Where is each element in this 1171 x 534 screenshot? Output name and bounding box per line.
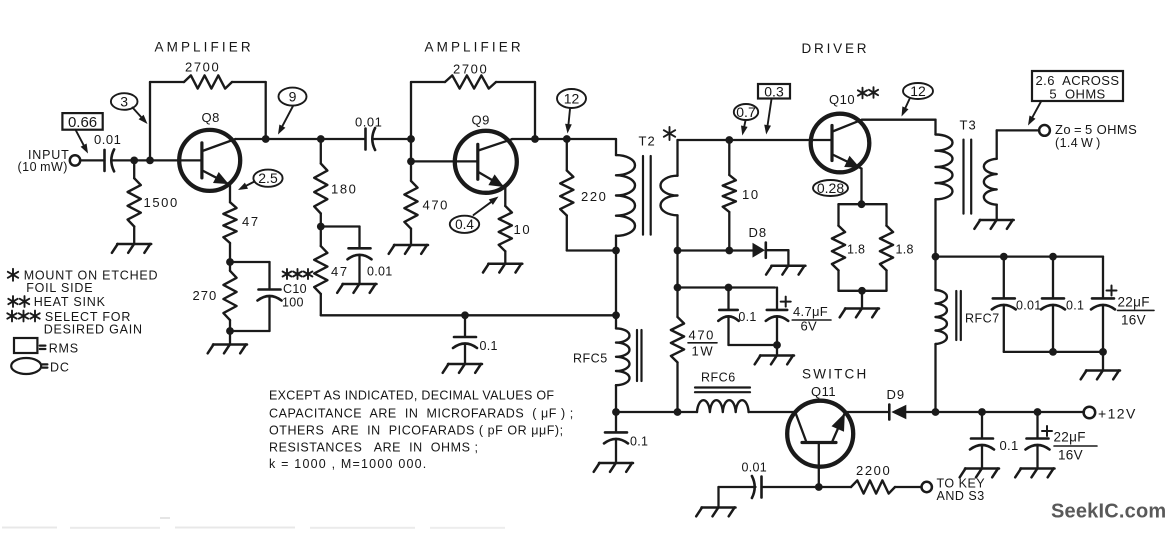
- label *** (select for gain): [286, 269, 288, 279]
- oval callout 0.28 (DC volts at Q10 emitter): [813, 180, 848, 196]
- capacitor 0.1 (supply): [1052, 257, 1054, 299]
- wire 4.7uF bottom leg: [776, 317, 778, 346]
- svg-text:2200: 2200: [856, 463, 891, 478]
- svg-text:180: 180: [331, 182, 358, 197]
- svg-text:+12V: +12V: [1098, 406, 1137, 422]
- svg-text:1W: 1W: [692, 344, 715, 359]
- output terminal Zo: [1039, 125, 1050, 136]
- diode D9: [891, 405, 906, 419]
- svg-text:CAPACITANCE ARE IN MICROFAR: CAPACITANCE ARE IN MICROFARADS ( μF ) ;: [269, 407, 574, 421]
- resistor 2200: [819, 486, 851, 488]
- Q8 collector lead: [202, 139, 235, 151]
- wire C1 to Q8 base: [112, 159, 202, 161]
- oval callout 3 (DC volts at Q8 base): [111, 93, 138, 110]
- legend ** heat sink: [12, 296, 14, 307]
- wire +12V rail right: [936, 411, 1085, 413]
- wire emitter network to ground: [861, 291, 863, 309]
- box callout 2.6 ACROSS 5 OHMS: [1032, 71, 1123, 101]
- wire coupling cap to Q9 node: [373, 138, 412, 140]
- wire Q11 to D9: [845, 411, 889, 413]
- wire T2 secondary top: [676, 140, 678, 176]
- wire long horizontal bus: [321, 314, 616, 316]
- svg-text:0.01: 0.01: [742, 461, 768, 475]
- node Q10 emitter junction: [858, 200, 866, 208]
- arrow from callout 3: [133, 108, 142, 118]
- svg-text:DESIRED GAIN: DESIRED GAIN: [44, 323, 143, 337]
- capacitor 0.1 (bus bypass): [464, 315, 466, 337]
- wire RFC5 top: [615, 315, 617, 328]
- node 2700 left leg junction: [146, 157, 154, 165]
- svg-text:2700: 2700: [185, 60, 220, 75]
- T3 primary winding: [936, 135, 953, 200]
- oval callout 12 (DC volts at Q9 collector): [557, 89, 586, 108]
- resistor 2700 (Q8 feedback): [184, 75, 232, 88]
- node 1.8 bottom junction: [858, 287, 866, 295]
- svg-text:(1.4 W ): (1.4 W ): [1055, 136, 1101, 150]
- wire 0.1 bottom leg: [727, 317, 729, 346]
- node 0.1 decoupling junction: [725, 284, 733, 292]
- resistor 270 (emitter bias): [229, 262, 231, 271]
- diode D8: [753, 243, 766, 258]
- svg-text:16V: 16V: [1121, 313, 1146, 328]
- svg-text:47: 47: [331, 264, 349, 279]
- svg-text:Q8: Q8: [202, 110, 220, 125]
- svg-text:DRIVER: DRIVER: [802, 41, 870, 56]
- svg-text:0.01: 0.01: [94, 132, 121, 147]
- svg-text:5 OHMS: 5 OHMS: [1049, 86, 1105, 101]
- svg-text:DC: DC: [50, 361, 70, 375]
- input terminal: [70, 155, 80, 165]
- capacitor 4.7uF 6V (electrolytic): [776, 288, 778, 310]
- node 2700b right junction: [531, 135, 539, 143]
- Q8 emitter lead: [202, 171, 230, 185]
- ground (below D8): [771, 265, 805, 268]
- wire 2700b left leg: [411, 81, 445, 83]
- node T2 primary bottom junction: [612, 247, 620, 255]
- svg-text:0.3: 0.3: [764, 83, 784, 99]
- transistor Q8: [179, 130, 240, 191]
- T3 core: [962, 140, 964, 214]
- ground (below shunt 0.01): [343, 283, 377, 286]
- legend DC oval symbol: [11, 358, 41, 374]
- resistor 10 (Q9 emitter): [504, 188, 506, 206]
- svg-text:RFC5: RFC5: [573, 352, 608, 366]
- wire cap row: [678, 286, 776, 288]
- resistor 2700 (Q9 feedback): [445, 75, 496, 88]
- Q11 emitter lead: [833, 413, 846, 442]
- capacitor 0.1 (below RFC5): [615, 412, 617, 432]
- svg-text:22μF: 22μF: [1054, 430, 1086, 445]
- wire 0.1 to ground (RFC5): [615, 439, 617, 463]
- Q9 collector lead: [478, 139, 512, 150]
- svg-text:16V: 16V: [1058, 448, 1083, 463]
- node 180 top junction: [317, 135, 325, 143]
- wire to ground below 270: [229, 331, 231, 345]
- node supply rail junction: [932, 408, 940, 416]
- node T2 secondary bottom junction: [674, 247, 682, 255]
- oval callout 04 (DC volts at Q9 emitter): [450, 216, 479, 233]
- resistor 180: [320, 139, 322, 164]
- svg-text:C10: C10: [283, 282, 307, 296]
- capacitor 0.01 (keying): [760, 477, 763, 498]
- svg-text:Q10: Q10: [829, 92, 855, 107]
- wire T3 primary bottom drop: [934, 199, 936, 256]
- svg-text:D9: D9: [887, 387, 906, 402]
- svg-text:Zo = 5 OHMS: Zo = 5 OHMS: [1055, 122, 1137, 137]
- svg-text:FOIL SIDE: FOIL SIDE: [26, 281, 93, 295]
- wire 2700 right leg to collector node: [232, 81, 266, 83]
- wire secondary bottom row: [678, 249, 754, 251]
- wire 22uF rail to ground: [1036, 445, 1038, 469]
- wire D9 to +12V rail: [906, 411, 935, 413]
- wire caps to ground: [776, 345, 778, 356]
- svg-text:4.7μF: 4.7μF: [793, 304, 828, 319]
- arrow from callout 9: [282, 106, 293, 126]
- resistor 1.8 (right): [885, 204, 887, 226]
- svg-text:SWITCH: SWITCH: [802, 367, 868, 382]
- Q11 collector lead: [795, 413, 806, 442]
- svg-text:RESISTANCES ARE IN OHMS ;: RESISTANCES ARE IN OHMS ;: [269, 441, 479, 455]
- node input bias junction: [130, 157, 138, 165]
- legend * mount on etched foil side: [12, 269, 14, 281]
- ground (below 1500): [117, 243, 151, 246]
- svg-text:0.4: 0.4: [455, 217, 474, 232]
- wire Q8 collector bus: [236, 138, 366, 140]
- capacitor 0.1 (rail bypass): [981, 412, 983, 439]
- svg-text:0.1: 0.1: [630, 435, 648, 449]
- svg-text:OTHERS ARE IN PICOFARADS (: OTHERS ARE IN PICOFARADS ( pF OR μμF);: [269, 424, 564, 438]
- svg-text:Q11: Q11: [811, 384, 836, 399]
- svg-text:0.01: 0.01: [367, 265, 393, 279]
- wire T3 secondary bottom: [996, 205, 998, 220]
- svg-text:AMPLIFIER: AMPLIFIER: [425, 40, 524, 55]
- node rail 0.1 junction: [978, 408, 986, 416]
- svg-text:220: 220: [581, 189, 608, 204]
- svg-text:100: 100: [282, 296, 304, 310]
- svg-text:k = 1000 , M=1000 000.: k = 1000 , M=1000 000.: [269, 457, 427, 471]
- svg-text:3: 3: [120, 93, 128, 109]
- wire +12V rail left: [616, 411, 697, 413]
- svg-text:D8: D8: [749, 225, 768, 240]
- wire supply caps bottom row: [1003, 305, 1005, 352]
- wire 1.8 top row: [839, 203, 887, 205]
- svg-text:1.8: 1.8: [896, 243, 914, 257]
- Q10 emitter lead: [833, 155, 862, 169]
- wire down to Q9 base node: [410, 139, 412, 161]
- capacitor C10 100 (emitter bypass): [259, 288, 281, 291]
- ground (below 4.7uF): [760, 354, 794, 357]
- arrow from callout 12: [569, 109, 571, 124]
- arrow from callout 0.66: [76, 130, 84, 145]
- wire 220 bottom to T2 primary bottom: [567, 249, 616, 251]
- svg-text:RMS: RMS: [49, 342, 79, 356]
- svg-text:SeekIC.com: SeekIC.com: [1051, 501, 1166, 523]
- wire C10 bottom leg: [268, 296, 270, 331]
- wire Q10 collector to T3: [862, 119, 936, 121]
- node 0.1 bypass junction: [461, 311, 469, 319]
- arrow from callout 0.3: [768, 99, 772, 125]
- svg-text:22μF: 22μF: [1118, 295, 1150, 310]
- RFC5 core: [636, 330, 638, 381]
- svg-text:0.01: 0.01: [1016, 299, 1042, 313]
- svg-text:9: 9: [289, 89, 297, 105]
- svg-text:10: 10: [742, 187, 760, 202]
- ground (below bus 0.1): [448, 363, 482, 366]
- ground (below rail 22uF): [1021, 467, 1055, 470]
- wire T2 secondary to Q10 base: [729, 139, 832, 141]
- node long-bus right junction: [612, 311, 620, 319]
- T2 secondary winding: [661, 176, 678, 216]
- wire Q9 base: [411, 160, 478, 162]
- wire secondary drop to cap row: [676, 251, 678, 288]
- scan artifact (cropped text at bottom edge): [2, 527, 57, 529]
- node bottom row 22uF junction: [1099, 348, 1107, 356]
- svg-text:T2: T2: [639, 134, 656, 149]
- T2 primary winding: [616, 155, 635, 236]
- arrow from callout 12 (driver): [905, 99, 909, 108]
- svg-text:0.1: 0.1: [738, 310, 756, 324]
- wire 0.1 rail to ground: [981, 445, 983, 469]
- svg-text:(10 mW): (10 mW): [18, 160, 68, 174]
- node Q9 base junction: [407, 158, 415, 166]
- node rail 22uF junction: [1034, 408, 1042, 416]
- svg-text:2700: 2700: [453, 62, 488, 77]
- ground (below 270/C10): [213, 343, 247, 346]
- svg-text:0.28: 0.28: [817, 180, 844, 196]
- node Q10 base bias top junction: [725, 136, 733, 144]
- wire shunt cap to ground: [358, 255, 360, 284]
- resistor 470 1W: [676, 288, 678, 318]
- svg-text:1500: 1500: [144, 195, 179, 210]
- transistor Q9: [455, 131, 517, 193]
- Q10 collector lead: [833, 120, 863, 132]
- ground (below 470): [394, 244, 428, 247]
- svg-text:AND S3: AND S3: [937, 489, 985, 503]
- svg-text:0.66: 0.66: [68, 114, 97, 131]
- node 470 1W rail junction: [674, 408, 682, 416]
- key terminal: [922, 482, 932, 492]
- resistor 470 (Q9 base bias): [410, 161, 412, 181]
- wire input to C1: [80, 159, 104, 161]
- box callout 0.66 (RMS volts at input): [62, 113, 102, 130]
- oval callout 2.5 (DC volts at Q8 emitter): [253, 170, 282, 187]
- wire T2 primary bottom: [615, 236, 617, 251]
- svg-text:T3: T3: [960, 118, 977, 133]
- legend RMS box symbol: [14, 338, 37, 353]
- inductor RFC6: [697, 400, 749, 412]
- node 220 top junction: [563, 135, 571, 143]
- wire 2700b right leg: [496, 81, 535, 83]
- transistor Q10 **: [811, 114, 870, 173]
- svg-text:1.8: 1.8: [847, 243, 865, 257]
- wire keying cap to ground: [719, 486, 756, 488]
- ground (T3 secondary): [980, 219, 1014, 222]
- inductor RFC5: [616, 328, 630, 385]
- arrow from callout 04: [474, 202, 491, 215]
- svg-text:270: 270: [193, 288, 218, 303]
- ground (keying cap): [702, 506, 736, 509]
- node 180/47 junction: [317, 223, 325, 231]
- svg-text:RFC6: RFC6: [701, 371, 736, 385]
- svg-text:Q9: Q9: [472, 113, 490, 128]
- wire to ground (supply caps): [1102, 352, 1104, 371]
- svg-text:47: 47: [242, 214, 260, 229]
- transistor Q11: [787, 401, 853, 467]
- capacitor 22uF 16V (supply): [1092, 297, 1114, 300]
- svg-text:EXCEPT AS INDICATED, DECIMAL V: EXCEPT AS INDICATED, DECIMAL VALUES OF: [269, 389, 554, 403]
- node bottom row 0.1 junction: [1049, 348, 1057, 356]
- node 0.1 supply junction: [1049, 253, 1057, 261]
- wire T3 secondary top to output: [996, 130, 998, 158]
- arrow from callout 0.7: [744, 121, 745, 127]
- T3 secondary winding: [984, 159, 997, 205]
- wire supply rail (T3 row): [936, 255, 1104, 257]
- node RFC5 bottom rail junction: [612, 408, 620, 416]
- svg-text:0.7: 0.7: [736, 104, 756, 120]
- wire D8 cathode to ground: [766, 249, 789, 251]
- resistor 1.8 (left): [837, 204, 839, 226]
- node cap row left junction: [674, 284, 682, 292]
- wire T2 primary top: [615, 139, 617, 155]
- svg-text:0.1: 0.1: [480, 339, 498, 353]
- wire RFC5 bottom: [615, 385, 617, 412]
- wire T2 primary bottom drop: [615, 251, 617, 316]
- wire C10 top leg: [230, 261, 270, 263]
- svg-text:10: 10: [514, 222, 532, 237]
- +12V terminal: [1084, 407, 1096, 419]
- wire Q9 collector bus: [512, 138, 616, 140]
- svg-text:470: 470: [689, 328, 716, 343]
- arrow from callout 2.5: [246, 182, 254, 186]
- oval callout 12 (driver collector): [903, 83, 933, 99]
- node Q8 collector junction: [262, 135, 270, 143]
- capacitor 0.01 (shunt): [349, 247, 371, 250]
- node T3 primary bottom junction: [932, 253, 940, 261]
- wire RFC6 to Q11: [749, 411, 796, 413]
- ground (below 22uF): [1086, 369, 1120, 372]
- svg-text:6V: 6V: [801, 319, 818, 334]
- ground (below Q9 10): [488, 262, 522, 265]
- wire T2 secondary bottom: [676, 216, 678, 251]
- node Q8 emitter bias junction: [226, 258, 234, 266]
- box callout 0.3 (RMS volts at Q10 base): [758, 84, 790, 99]
- node 0.01 supply junction: [1000, 253, 1008, 261]
- svg-text:0.01: 0.01: [355, 115, 382, 130]
- arrow from callout 2.6: [1033, 102, 1042, 118]
- oval callout 0.7 (DC volts at Q10 base): [734, 104, 758, 120]
- T2 core: [642, 156, 644, 235]
- wire 2700 left leg to base node: [150, 81, 184, 83]
- Q9 emitter lead: [478, 172, 505, 188]
- resistor 10 (Q10 base bias): [728, 140, 730, 175]
- svg-text:AMPLIFIER: AMPLIFIER: [155, 40, 254, 55]
- svg-text:2.5: 2.5: [258, 170, 278, 186]
- node caps ground junction: [773, 341, 781, 349]
- svg-text:12: 12: [564, 90, 580, 106]
- resistor 47 (interstage, ***): [320, 227, 322, 247]
- capacitor 0.01 (interstage coupling): [364, 129, 367, 150]
- node 10 resistor bottom junction: [725, 247, 733, 255]
- wire 47 junction to shunt cap: [321, 225, 360, 227]
- capacitor 0.01 (input coupling): [103, 150, 106, 171]
- legend *** select for desired gain: [11, 311, 13, 322]
- node 270 bottom junction: [226, 327, 234, 335]
- resistor 220 (T2 damping): [566, 139, 568, 171]
- Q11 base stem: [818, 443, 820, 488]
- oval callout 9 (DC volts at Q8 collector): [279, 88, 307, 106]
- capacitor 22uF 16V (rail): [1036, 412, 1038, 439]
- capacitor 0.1 (decoupling): [727, 288, 729, 310]
- svg-text:12: 12: [910, 83, 926, 99]
- resistor 1500 (input shunt): [133, 160, 135, 178]
- inductor RFC7: [934, 257, 936, 290]
- svg-text:0.1: 0.1: [1066, 299, 1084, 313]
- wire 1.8 bottom row: [839, 290, 887, 292]
- ground (below RFC5 0.1): [599, 462, 633, 465]
- ground (below rail 0.1): [965, 467, 999, 470]
- wire Q10 emitter drop: [860, 169, 862, 205]
- svg-text:RFC7: RFC7: [965, 312, 1000, 326]
- wire keying cap to Q11 base: [762, 486, 819, 488]
- wire 0.1 to ground: [464, 344, 466, 365]
- svg-text:0.1: 0.1: [1000, 438, 1019, 453]
- ground (below 1.8 pair): [845, 307, 879, 310]
- svg-text:470: 470: [423, 198, 450, 213]
- node Q11 base junction: [815, 483, 823, 491]
- svg-text:HEAT SINK: HEAT SINK: [34, 295, 106, 309]
- resistor 47 (Q8 emitter): [229, 185, 231, 202]
- node Q9 input top junction: [407, 135, 415, 143]
- capacitor 0.01 (supply): [1003, 257, 1005, 299]
- RFC7 core: [955, 291, 957, 340]
